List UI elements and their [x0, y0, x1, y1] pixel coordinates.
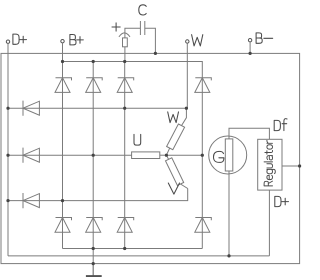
field winding rect: [225, 139, 233, 171]
diode D5 negative col2: [86, 218, 103, 233]
node ground frame: [92, 262, 95, 265]
winding V stator: [166, 158, 184, 186]
capacitor polarity arc: [119, 33, 130, 37]
node bottom bus col2: [92, 247, 95, 250]
diode D3 positive col3: [117, 78, 134, 93]
wire capacitor right lead to frame: [145, 28, 156, 53]
capacitor plus polarity: [112, 23, 120, 31]
wire neutral point line: [201, 78, 203, 249]
wire regulator D+ pin down: [268, 190, 270, 256]
frame B- housing border: [1, 53, 300, 263]
terminal B+: [61, 40, 64, 43]
wire bottom diode bus: [63, 248, 203, 250]
node D+ row1: [6, 107, 9, 110]
node row1 col3: [123, 107, 126, 110]
node cap to frame: [154, 52, 157, 55]
diode D2 positive col2: [86, 78, 103, 93]
label C capacitor: [139, 5, 146, 15]
label D+ terminal: [13, 34, 27, 44]
terminal D+: [6, 40, 9, 43]
node regulator frame: [298, 164, 301, 167]
rotor G circle: [209, 136, 247, 174]
wire capacitor left lead: [125, 28, 140, 38]
node row3 col1: [61, 199, 64, 202]
winding U stator: [132, 152, 160, 159]
winding W stator: [167, 124, 185, 150]
label W winding: [168, 112, 179, 123]
wire U to star node: [160, 154, 167, 156]
wire B+ bus: [63, 62, 203, 78]
wire V winding bottom lead: [181, 184, 188, 189]
wire Df from field top to regulator: [229, 128, 269, 139]
node neutral mid: [201, 154, 204, 157]
node field D+ rail: [227, 254, 230, 257]
node D+ row3: [6, 199, 9, 202]
wire capacitor to B+ bus: [124, 47, 126, 62]
wire D+ rail vertical: [7, 43, 9, 256]
node row1 W terminal: [185, 107, 188, 110]
diode D4 negative col1: [55, 218, 72, 233]
wire regulator D- pin to frame: [282, 165, 300, 167]
wire rectifier column 3: [124, 62, 126, 249]
label G rotor: [214, 151, 224, 162]
wire phase V row: [8, 189, 188, 201]
diode E1 exciter row1: [23, 101, 39, 116]
wire W lead: [186, 43, 188, 108]
wire D+ rail horizontal: [8, 255, 269, 257]
wire field bottom to D+ rail: [228, 171, 230, 256]
label Regulator rotated: [264, 140, 275, 186]
wire phase U row: [8, 154, 132, 156]
label D+ regulator: [275, 196, 289, 206]
node D+ row2: [6, 154, 9, 157]
ground symbol: [86, 275, 102, 277]
wire star to neutral line: [166, 154, 202, 156]
terminal W: [186, 40, 189, 43]
diode E3 exciter row3: [23, 193, 39, 208]
node B+ bus col3 cap: [123, 60, 126, 63]
terminal B-: [248, 39, 251, 42]
wire W winding top lead: [182, 108, 187, 125]
wire phase W row: [8, 107, 186, 109]
diode D8 neutral bottom: [195, 218, 212, 233]
capacitor sleeve rect: [123, 38, 128, 47]
label W terminal: [192, 35, 203, 46]
label U winding: [134, 134, 141, 145]
wire rectifier column 1: [62, 62, 64, 249]
capacitor C plates: [139, 21, 141, 35]
diode D1 positive col1: [55, 78, 72, 93]
wire W winding bottom lead: [166, 148, 169, 155]
wire ground stub below frame: [92, 264, 94, 276]
node B- frame: [249, 52, 252, 55]
node B+ bus col2: [92, 60, 95, 63]
node star point: [165, 154, 168, 157]
wire V winding top lead: [166, 155, 168, 159]
node row2 col2: [92, 154, 95, 157]
label B- terminal: [256, 33, 273, 43]
label Df: [274, 119, 287, 131]
regulator box U1: [258, 139, 282, 190]
node B+ bus col1: [61, 60, 64, 63]
wire B- lead: [249, 42, 251, 54]
diode E2 exciter row2: [23, 148, 39, 163]
label V winding: [168, 183, 179, 194]
wire rectifier column 2 and ground stub: [92, 62, 94, 276]
label B+ terminal: [70, 35, 83, 45]
diode D7 neutral top: [195, 78, 212, 93]
diode D6 negative col3: [117, 218, 134, 233]
wire B+ lead: [62, 43, 64, 62]
node bottom bus col3: [123, 247, 126, 250]
